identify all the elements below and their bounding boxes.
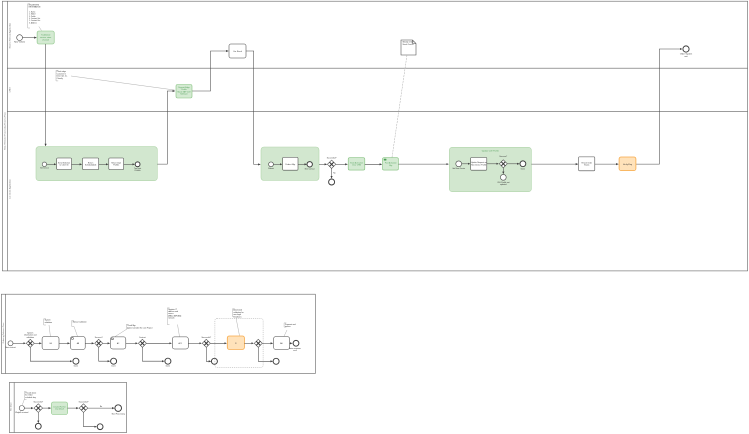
- wire gateway F to green task: [43, 407, 51, 409]
- pool2 title divider: [5, 294, 7, 373]
- wire gateway F down: [37, 412, 39, 422]
- wire green B to container3: [398, 163, 448, 165]
- svg-text:New to Telecom Application: New to Telecom Application: [8, 22, 11, 48]
- end event: done2: [111, 358, 117, 367]
- task R (orange): [227, 336, 244, 349]
- task AB with marker icon: [71, 337, 86, 350]
- wire gateway A to task CA: [34, 342, 41, 344]
- svg-text:Profiles: Profiles: [113, 165, 119, 167]
- end event: bee contact: [305, 162, 315, 171]
- pool2 frame: [1, 294, 315, 373]
- task: post activation mgr (green with icon): [383, 158, 399, 170]
- task: car stock check (white, lane1): [229, 44, 246, 58]
- wire start3 to update task: [462, 163, 470, 165]
- wire AB to gateway B: [85, 342, 94, 344]
- svg-text:exit: exit: [684, 55, 688, 58]
- svg-text:Done: Done: [111, 366, 115, 368]
- wire sub task2 to task3: [99, 163, 108, 165]
- wire container2 to gateway1: [319, 163, 327, 165]
- svg-text:Successful?: Successful?: [79, 401, 89, 403]
- wire gateway1 down no branch: [331, 169, 333, 179]
- pool3 title strip: [13, 382, 15, 432]
- task AC1: [172, 337, 188, 349]
- wire gateway G down right: [84, 412, 97, 426]
- task: created further new default (green): [52, 402, 68, 415]
- start event: get device: [40, 162, 49, 170]
- lane divider 2: [7, 111, 747, 113]
- svg-text:New IT Device Processing Proce: New IT Device Processing Process Flow: [3, 112, 6, 150]
- start event: get new device: [452, 161, 465, 170]
- pool title divider: [6, 1, 8, 271]
- wire product mgr to end2: [298, 163, 307, 165]
- wire orange task up to end event: [636, 49, 682, 164]
- svg-text:Done: Done: [166, 366, 170, 368]
- POOL 3: [9, 382, 126, 432]
- svg-text:network: network: [168, 317, 174, 320]
- svg-text:Product Mgr: Product Mgr: [285, 163, 295, 166]
- svg-text:Get Device: Get Device: [40, 167, 49, 170]
- lead line annotation to CRM task: [71, 76, 175, 90]
- svg-text:Contract: Contract: [139, 336, 146, 339]
- svg-text:MC Dept: MC Dept: [9, 402, 12, 410]
- wire R to gateway E: [244, 342, 253, 344]
- dashed association: document to green task B: [392, 55, 407, 157]
- subprocess container 1: [36, 147, 157, 181]
- wire gateway2 to end3: [507, 163, 519, 165]
- wire AE to final end: [290, 342, 293, 344]
- svg-text:Robust: Robust: [268, 167, 274, 170]
- annotation: automated validation for own legal conditions: [233, 309, 244, 336]
- svg-text:Verify Flag: Verify Flag: [623, 163, 632, 166]
- gateway: success? (container3): [499, 156, 507, 168]
- svg-text:No: No: [333, 173, 335, 175]
- svg-text:Status: Status: [584, 164, 589, 167]
- end event: done4: [211, 358, 217, 364]
- end event: done (container3): [520, 161, 526, 170]
- gateway A: system information and validation: [24, 331, 36, 347]
- task: return dept profiles: [109, 158, 124, 170]
- task: deposit edge profile (green, CRM): [176, 85, 192, 99]
- svg-text:conditions: conditions: [233, 315, 241, 318]
- wire start to gateway A: [13, 342, 26, 344]
- wire gateway E down to done5: [258, 347, 272, 361]
- wire update task to gateway2: [487, 163, 499, 165]
- svg-text:new default: new default: [55, 408, 65, 411]
- svg-text:updated: updated: [500, 183, 507, 186]
- pool3 frame: [9, 382, 126, 432]
- end event: done1: [73, 358, 79, 367]
- svg-text:Successful?: Successful?: [327, 158, 337, 160]
- task: return schedule: [83, 158, 99, 170]
- svg-text:Sales Consider the core Projec: Sales Consider the core Project: [127, 326, 153, 329]
- svg-text:Update CLE Profile: Update CLE Profile: [482, 149, 500, 152]
- svg-text:validation: validation: [27, 336, 35, 339]
- svg-text:Mgr: Mgr: [389, 165, 392, 167]
- wire revisit to verify flag: [595, 163, 619, 165]
- POOL 2: [1, 294, 315, 373]
- annotation: register IT address and source: [167, 308, 181, 337]
- svg-text:Start Processing: Start Processing: [112, 412, 125, 415]
- svg-text:CRM: CRM: [9, 87, 11, 92]
- gateway D: successful?: [201, 337, 211, 348]
- svg-text:Success?: Success?: [499, 156, 507, 158]
- svg-text:Successful?: Successful?: [201, 337, 211, 339]
- start event: new contract: [5, 341, 16, 349]
- annotation: manual validation: [72, 320, 87, 336]
- annotation: credit mgr: [115, 324, 153, 336]
- start event: New Vehicle: [14, 35, 26, 44]
- wire gateway1 to green task A: [336, 163, 348, 165]
- MAIN POOL: [2, 1, 747, 271]
- task AE: [274, 337, 290, 350]
- wire gateway2 down: [502, 168, 504, 174]
- data object: weekly order form document: [401, 40, 416, 55]
- wire container3 to revisit order status: [531, 163, 578, 165]
- wire gateway E to task AE: [262, 342, 273, 344]
- subprocess container 3: update CLE profile: [449, 147, 531, 191]
- annotation: check edge customer data: [56, 70, 68, 81]
- task: update request on new device profile: [471, 158, 487, 171]
- wire gateway A down to done1: [30, 347, 72, 361]
- wire start2 to product mgr: [273, 163, 282, 165]
- end event: no branch circle: [329, 179, 335, 185]
- svg-text:3. Profile: 3. Profile: [29, 16, 35, 18]
- task: revisit order status: [579, 157, 595, 171]
- LANE 3 CONTENT: [36, 91, 636, 192]
- svg-text:Car Order Application: Car Order Application: [8, 178, 11, 199]
- svg-text:Stock Checks: Stock Checks: [403, 43, 414, 46]
- pool frame: [2, 1, 747, 271]
- wire start to gateway F: [24, 407, 33, 409]
- svg-text:Profiles: Profiles: [135, 170, 141, 172]
- wire AC1 to gateway D: [188, 342, 201, 344]
- svg-text:INFORMATION:: INFORMATION:: [29, 6, 42, 9]
- subprocess container 2: [261, 147, 319, 181]
- svg-text:Software: Software: [180, 93, 187, 96]
- svg-text:1. Name: 1. Name: [29, 11, 35, 13]
- svg-text:New contract: New contract: [5, 346, 16, 349]
- gateway G: successful?: [79, 401, 89, 412]
- gateway E: [254, 339, 262, 347]
- wire container1 up to CRM task: [157, 91, 175, 164]
- svg-text:Ordering Telecom Time: Ordering Telecom Time: [3, 322, 5, 344]
- wire gateway B to task AC: [103, 342, 110, 344]
- svg-text:channel: channel: [42, 40, 50, 42]
- task AC with marker icon: [111, 337, 126, 349]
- svg-text:Schedule(def): Schedule(def): [85, 165, 97, 167]
- svg-text:Successful?: Successful?: [33, 401, 43, 403]
- svg-text:to Client ID: to Client ID: [60, 164, 70, 167]
- lane divider 1: [7, 67, 747, 69]
- wire gateway D down to done4: [206, 347, 211, 361]
- dashed group box: [215, 318, 263, 367]
- svg-text:sent: sent: [293, 349, 297, 352]
- svg-text:New Vehicle: New Vehicle: [14, 42, 26, 44]
- wire CA to AB: [59, 342, 70, 344]
- wire sub task3 to end: [124, 163, 135, 165]
- LANE 2 CONTENT: [56, 70, 192, 98]
- svg-text:Get New Device: Get New Device: [452, 167, 465, 170]
- svg-text:Success?: Success?: [95, 337, 103, 339]
- end event: auto response sent: [289, 340, 301, 352]
- task: verify flag (orange): [619, 157, 636, 171]
- task: stock activation clear CRM (green): [348, 158, 365, 170]
- wire car stock down to subprocess2: [246, 51, 260, 164]
- event: CLE profile not updated: [497, 174, 510, 186]
- annotation: system validation: [44, 319, 52, 337]
- svg-text:Manual validation: Manual validation: [73, 320, 87, 323]
- gateway F: successful?: [33, 401, 43, 412]
- wire start to sub task1: [47, 163, 56, 165]
- svg-text:schedule day: schedule day: [25, 397, 36, 399]
- annotation: requested information list: [28, 4, 42, 31]
- LANE 1 CONTENT: [14, 4, 692, 165]
- start event: robust: [268, 162, 274, 170]
- wire lane2 task up into car stock: [192, 51, 228, 91]
- wire green A to green B: [365, 163, 382, 165]
- end event: start processing: [112, 405, 125, 416]
- end event: done3: [165, 358, 171, 367]
- task CA: [42, 337, 59, 350]
- end event: below gateway F: [35, 423, 41, 429]
- gateway: successful?: [327, 158, 337, 169]
- wire green task to gateway G: [68, 407, 79, 409]
- wire sub task1 to task2: [72, 163, 82, 165]
- end event: below gateway G: [97, 424, 103, 430]
- end event: top dept profiles: [134, 162, 142, 172]
- wire AC to gateway C: [126, 342, 138, 344]
- wire gateway B down to done2: [99, 347, 110, 361]
- svg-text:Done: Done: [521, 168, 525, 170]
- wire task1 down to subprocess1: [45, 44, 47, 146]
- end event: done5: [273, 358, 279, 364]
- wire gateway C to task AC1: [146, 342, 171, 344]
- svg-text:Car Stock: Car Stock: [233, 50, 242, 53]
- annotation: payment and invoice: [284, 323, 296, 337]
- svg-text:Done: Done: [74, 366, 78, 368]
- task: send selection to client: [57, 158, 72, 170]
- svg-text:2. Model: 2. Model: [29, 14, 36, 16]
- gateway C: contract: [138, 336, 146, 348]
- task: traditional service store channel (green): [37, 31, 54, 44]
- svg-text:Waybill received: Waybill received: [15, 412, 28, 414]
- start event: waybill received: [15, 406, 28, 415]
- task: product mgr: [283, 157, 298, 170]
- svg-text:AC1: AC1: [179, 342, 183, 345]
- wire start to task1: [23, 37, 37, 39]
- svg-text:invoice: invoice: [285, 326, 291, 328]
- end event: order system done: [680, 46, 693, 58]
- svg-text:Clear CRM: Clear CRM: [352, 165, 361, 167]
- gateway B: success?: [95, 337, 103, 348]
- svg-text:No: No: [100, 406, 102, 408]
- svg-text:Bee Contact: Bee Contact: [305, 168, 315, 171]
- svg-text:New Device Profile: New Device Profile: [471, 164, 486, 166]
- annotation: the job about the order schedule day: [22, 392, 36, 405]
- svg-text:Classify: Classify: [57, 78, 63, 80]
- wire gateway C down to done3: [142, 347, 164, 361]
- wire gateway G to end (no): [88, 407, 115, 409]
- wire gateway D to orange task R: [210, 342, 226, 344]
- svg-text:validation: validation: [45, 321, 53, 324]
